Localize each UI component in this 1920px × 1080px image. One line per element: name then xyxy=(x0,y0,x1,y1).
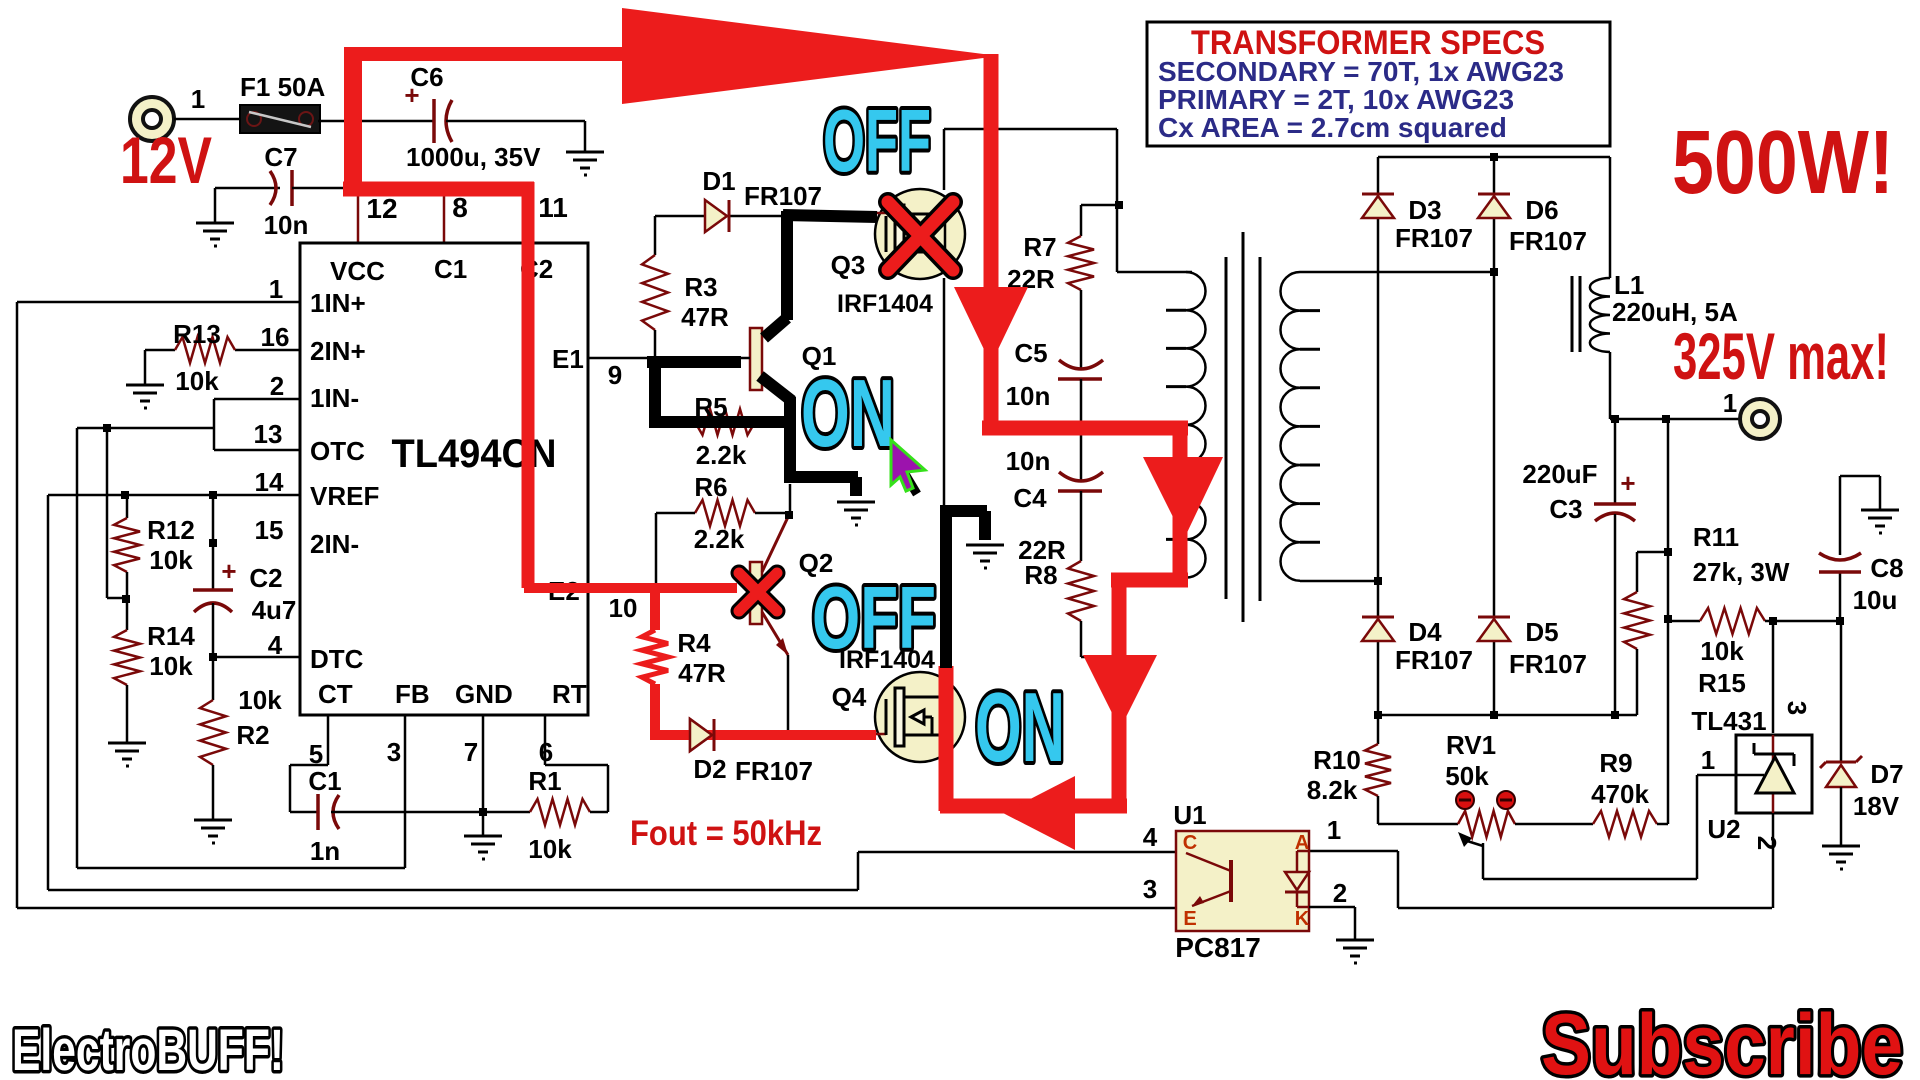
svg-text:TL431: TL431 xyxy=(1691,706,1766,736)
svg-text:2: 2 xyxy=(1333,878,1347,908)
wire C1 pin stub 8 xyxy=(443,190,446,243)
svg-text:D7: D7 xyxy=(1870,759,1903,789)
svg-text:10k: 10k xyxy=(149,651,193,681)
wire VREF bottom bus to U1 pin4 xyxy=(48,889,858,892)
resistor R1 10k xyxy=(530,799,590,825)
svg-text:VCC: VCC xyxy=(330,256,385,286)
wire red path primary jog xyxy=(1111,573,1188,588)
wire red path 12V riser xyxy=(344,47,362,192)
capacitor C2 4u7 xyxy=(193,588,233,592)
wire TL431 pin1 to RV1 wiper xyxy=(1697,774,1764,777)
resistor R6 2.2k xyxy=(695,500,755,526)
svg-text:FR107: FR107 xyxy=(1509,649,1587,679)
svg-text:1: 1 xyxy=(1327,815,1341,845)
zener D7 18V xyxy=(1840,621,1843,762)
IC U1 PC817 optocoupler xyxy=(1176,831,1309,931)
svg-text:D2: D2 xyxy=(693,754,726,784)
wire primary bottom lead xyxy=(1119,577,1186,580)
svg-text:L1: L1 xyxy=(1614,270,1644,300)
resistor R5 2.2k xyxy=(695,409,755,435)
svg-text:10u: 10u xyxy=(1853,585,1898,615)
svg-text:D3: D3 xyxy=(1408,195,1441,225)
svg-text:OFF: OFF xyxy=(812,568,936,667)
svg-text:R1: R1 xyxy=(528,766,561,796)
wire inner bottom bus xyxy=(77,867,405,870)
ground (pin7) xyxy=(464,836,502,859)
svg-text:2.2k: 2.2k xyxy=(696,440,747,470)
wire C6 to ground xyxy=(446,120,585,123)
svg-text:R3: R3 xyxy=(684,272,717,302)
svg-text:10k: 10k xyxy=(238,685,282,715)
svg-text:E: E xyxy=(1183,908,1196,930)
wire red path VCC link xyxy=(343,182,534,197)
wire black E1 feed xyxy=(647,356,741,368)
svg-text:ON: ON xyxy=(801,360,895,467)
resistor R14 10k xyxy=(126,599,129,630)
red arrow down (primary) xyxy=(1143,457,1223,539)
wire output sense vertical xyxy=(1667,419,1670,824)
svg-text:10k: 10k xyxy=(149,545,193,575)
svg-text:FR107: FR107 xyxy=(744,181,822,211)
svg-text:FR107: FR107 xyxy=(1395,223,1473,253)
ground (R13) xyxy=(126,385,164,408)
capacitor C8 10u xyxy=(1839,476,1842,555)
svg-text:1: 1 xyxy=(191,84,205,114)
wire C2 to DTC xyxy=(212,603,215,657)
node snubber junction xyxy=(1115,201,1123,209)
svg-text:R9: R9 xyxy=(1599,748,1632,778)
diode D2 FR107 (overlay) xyxy=(690,719,712,751)
resistor R12 10k xyxy=(126,495,129,518)
svg-text:GND: GND xyxy=(455,679,513,709)
svg-text:16: 16 xyxy=(261,322,290,352)
svg-text:FR107: FR107 xyxy=(1395,645,1473,675)
ground (D7) xyxy=(1822,846,1860,869)
svg-text:2: 2 xyxy=(1752,836,1782,850)
wire secondary top lead xyxy=(1300,271,1494,274)
svg-text:D5: D5 xyxy=(1525,617,1558,647)
svg-text:27k, 3W: 27k, 3W xyxy=(1693,557,1790,587)
resistor R3 47R xyxy=(654,216,657,255)
svg-text:RV1: RV1 xyxy=(1446,730,1496,760)
capacitor C4 10n xyxy=(1059,472,1103,481)
wire pin14 VREF xyxy=(48,494,300,497)
resistor R4 47R (red highlighted) xyxy=(642,630,668,684)
svg-text:R6: R6 xyxy=(694,472,727,502)
svg-text:D1: D1 xyxy=(702,166,735,196)
diode D3 FR107 xyxy=(1362,196,1394,218)
ground (R2) xyxy=(194,820,232,843)
wire black through R5 xyxy=(649,416,795,428)
wire C1 to GND node xyxy=(331,811,530,814)
wire TL431 pin2 down xyxy=(1772,813,1775,908)
wire red path bottom horizontal xyxy=(940,799,1127,814)
diode D2 FR107 xyxy=(690,719,712,751)
diode D6 FR107 xyxy=(1478,196,1510,218)
svg-text:1: 1 xyxy=(269,274,283,304)
svg-text:15: 15 xyxy=(255,515,284,545)
wire pin3 FB stub xyxy=(404,715,407,868)
wire negative rail xyxy=(1378,714,1637,717)
svg-text:VREF: VREF xyxy=(310,481,379,511)
svg-text:PC817: PC817 xyxy=(1175,932,1261,963)
ground (U1 pin2) xyxy=(1336,940,1374,963)
node R12/R14 junction xyxy=(122,595,130,603)
svg-text:OTC: OTC xyxy=(310,436,365,466)
svg-text:C8: C8 xyxy=(1870,553,1903,583)
ground (R14) xyxy=(108,743,146,766)
red X (E2 blocked) xyxy=(739,573,777,611)
svg-text:R4: R4 xyxy=(677,628,711,658)
wire red path E2 horizontal xyxy=(524,583,737,593)
wire red path R4 branch xyxy=(650,588,660,630)
transformer T1 secondary winding xyxy=(1280,272,1300,581)
node output junctions xyxy=(1611,415,1619,423)
svg-text:10n: 10n xyxy=(1006,381,1051,411)
svg-text:RT: RT xyxy=(552,679,587,709)
wire pin2 1IN- xyxy=(214,398,300,401)
svg-text:CT: CT xyxy=(318,679,353,709)
wire R8 bottom xyxy=(1080,621,1083,657)
svg-text:11: 11 xyxy=(538,192,568,223)
wire E1 pin9 xyxy=(588,357,655,360)
wire RV1 to R9 xyxy=(1515,823,1593,826)
svg-text:ON: ON xyxy=(975,672,1065,782)
svg-text:SECONDARY = 70T, 1x AWG23: SECONDARY = 70T, 1x AWG23 xyxy=(1158,56,1564,87)
svg-text:1: 1 xyxy=(1701,745,1715,775)
capacitor C3 220uF xyxy=(1614,419,1617,504)
transformer specs box xyxy=(1147,22,1610,146)
svg-text:R11: R11 xyxy=(1693,522,1739,552)
ground (C6) xyxy=(566,152,604,175)
wire black Q1 emitter to ground xyxy=(784,471,858,483)
svg-text:10k: 10k xyxy=(1700,636,1744,666)
svg-text:4: 4 xyxy=(268,630,283,660)
wire D6/D5 vertical xyxy=(1493,157,1496,193)
svg-text:C: C xyxy=(1183,832,1197,854)
wire C5 to C4 xyxy=(1080,379,1083,482)
svg-text:ElectroBUFF!: ElectroBUFF! xyxy=(12,1018,284,1080)
wire red path top horizontal xyxy=(344,47,680,61)
wire junction to R12 node xyxy=(106,428,109,598)
svg-text:18V: 18V xyxy=(1853,791,1900,821)
wire red path primary bottom half xyxy=(1112,580,1127,812)
svg-text:OFF: OFF xyxy=(823,91,931,190)
resistor R10 8.2k xyxy=(1377,715,1380,744)
svg-text:Q4: Q4 xyxy=(832,682,867,712)
node junction xyxy=(103,424,111,432)
wire top DC rail xyxy=(1378,156,1610,159)
IC U? TL494CN box xyxy=(300,243,588,715)
ground (C8) xyxy=(1861,510,1899,533)
svg-text:C6: C6 xyxy=(410,62,443,92)
wire secondary bottom lead xyxy=(1300,580,1378,583)
resistor R15 10k xyxy=(1668,620,1700,623)
svg-text:U2: U2 xyxy=(1707,814,1740,844)
wire R7 top xyxy=(1081,204,1119,207)
node GND junction xyxy=(479,808,487,816)
wire red path primary top half xyxy=(1173,428,1188,580)
svg-text:2IN+: 2IN+ xyxy=(310,336,366,366)
svg-text:50k: 50k xyxy=(1445,761,1489,791)
transistor Q2 xyxy=(750,562,762,624)
wire 12V to fuse xyxy=(174,118,242,121)
svg-text:470k: 470k xyxy=(1591,779,1649,809)
wire black drive D1 to Q3 gate xyxy=(783,215,877,217)
svg-text:1n: 1n xyxy=(310,836,340,866)
wire primary top lead xyxy=(1117,271,1192,274)
svg-text:C7: C7 xyxy=(264,142,297,172)
capacitor C7 10n xyxy=(215,187,280,190)
wire red path E2 inside IC xyxy=(522,182,535,588)
svg-text:C2: C2 xyxy=(249,563,282,593)
wire red path down to center tap xyxy=(984,54,999,430)
svg-text:1IN+: 1IN+ xyxy=(310,288,366,318)
wire black E1 down xyxy=(649,357,661,427)
svg-text:3: 3 xyxy=(1143,874,1157,904)
svg-text:C3: C3 xyxy=(1549,494,1582,524)
resistor R9 470k xyxy=(1593,811,1657,837)
svg-text:Q3: Q3 xyxy=(831,250,866,280)
wire L1 to output xyxy=(1609,352,1612,419)
diode D4 FR107 xyxy=(1362,619,1394,641)
wire black drive Q1 collector riser xyxy=(781,211,793,320)
wire pin4 DTC xyxy=(213,656,300,659)
svg-text:10: 10 xyxy=(609,593,638,623)
red arrow down (to Q4) xyxy=(1083,655,1157,729)
MOSFET Q4 IRF1404 xyxy=(875,672,965,762)
svg-text:C1: C1 xyxy=(434,254,467,284)
node secondary junctions xyxy=(1490,268,1498,276)
svg-text:K: K xyxy=(1295,908,1310,930)
svg-text:FB: FB xyxy=(395,679,430,709)
resistor R2 10k xyxy=(212,657,215,700)
resistor R7 22R xyxy=(1068,236,1094,290)
svg-text:325V max!: 325V max! xyxy=(1673,319,1889,393)
wire red path D2 to Q4 gate xyxy=(650,730,876,740)
svg-text:12: 12 xyxy=(366,193,397,224)
wire feedback to pin2 node xyxy=(77,427,214,430)
wire Q3 drain net xyxy=(943,129,946,190)
node VREF junctions xyxy=(121,491,129,499)
wire R7 to C5 xyxy=(1080,290,1083,370)
resistor R11 27k 3W xyxy=(1637,551,1668,554)
wire fuse to C6 xyxy=(318,120,434,123)
red arrow right xyxy=(622,8,999,104)
transformer core xyxy=(1225,257,1228,599)
svg-text:+: + xyxy=(1620,468,1635,498)
svg-text:14: 14 xyxy=(255,467,284,497)
svg-text:R12: R12 xyxy=(147,515,195,545)
svg-text:Fout = 50kHz: Fout = 50kHz xyxy=(630,814,822,853)
wire red path R4 to D2 xyxy=(650,684,660,735)
svg-text:U1: U1 xyxy=(1173,800,1206,830)
svg-text:3: 3 xyxy=(387,737,401,767)
capacitor C5 10n xyxy=(1059,360,1103,369)
svg-text:13: 13 xyxy=(254,419,283,449)
MOSFET Q3 IRF1404 xyxy=(875,189,965,279)
svg-text:10k: 10k xyxy=(175,366,219,396)
ground (Q4 gate) xyxy=(966,545,1004,568)
svg-text:C1: C1 xyxy=(308,766,341,796)
wire bottom bus to U1 pin3 xyxy=(17,907,1176,910)
svg-text:C5: C5 xyxy=(1014,338,1047,368)
wire opto cathode to ground xyxy=(1309,906,1355,909)
wire black Q4 gate pulldown xyxy=(940,511,952,668)
svg-text:47R: 47R xyxy=(681,302,729,332)
wire opto anode to TL431 xyxy=(1398,907,1772,910)
wire pin1 1IN+ left bus xyxy=(17,301,300,304)
svg-text:2.2k: 2.2k xyxy=(694,524,745,554)
wire pin15 2IN- xyxy=(212,495,215,590)
wire VCC pin stub 12 xyxy=(357,190,360,243)
resistor R13 10k xyxy=(235,349,300,352)
node 12V input connector xyxy=(130,97,174,141)
svg-text:A: A xyxy=(1295,832,1309,854)
red arrow left (into Q4) xyxy=(1003,776,1075,850)
svg-text:2: 2 xyxy=(270,371,284,401)
svg-text:4u7: 4u7 xyxy=(252,595,297,625)
svg-text:F1 50A: F1 50A xyxy=(240,72,325,102)
svg-text:R14: R14 xyxy=(147,621,195,651)
diode D5 FR107 xyxy=(1478,619,1510,641)
svg-text:D4: D4 xyxy=(1408,617,1442,647)
wire pin7 GND stub xyxy=(482,715,485,836)
red X over Q3 xyxy=(888,202,953,270)
IC U2 TL431 xyxy=(1736,735,1812,813)
svg-text:2IN-: 2IN- xyxy=(310,529,359,559)
wire red path to primary xyxy=(982,421,1188,436)
svg-text:C4: C4 xyxy=(1013,483,1047,513)
svg-text:R10: R10 xyxy=(1313,745,1361,775)
mouse cursor xyxy=(905,474,917,494)
svg-text:1000u, 35V: 1000u, 35V xyxy=(406,142,541,172)
capacitor C6 1000u 35V xyxy=(432,99,436,143)
svg-text:R15: R15 xyxy=(1698,668,1746,698)
potentiometer RV1 50k xyxy=(1458,811,1515,837)
svg-text:7: 7 xyxy=(464,737,478,767)
node output connector 325V xyxy=(1740,399,1780,439)
resistor R8 22R xyxy=(1068,561,1094,621)
inductor L1 220uH 5A xyxy=(1571,276,1574,352)
svg-text:8.2k: 8.2k xyxy=(1307,775,1358,805)
svg-text:10n: 10n xyxy=(264,210,309,240)
svg-text:R8: R8 xyxy=(1024,560,1057,590)
svg-text:R13: R13 xyxy=(173,319,221,349)
transistor Q1 xyxy=(750,328,762,390)
svg-text:10n: 10n xyxy=(1006,446,1051,476)
wire pin5 CT loop xyxy=(327,715,330,765)
svg-text:R7: R7 xyxy=(1023,232,1056,262)
svg-text:4: 4 xyxy=(1143,822,1158,852)
transformer T1 primary winding xyxy=(1186,272,1206,578)
wire C4 to R8 xyxy=(1080,491,1083,561)
svg-text:10k: 10k xyxy=(528,834,572,864)
svg-text:1IN-: 1IN- xyxy=(310,383,359,413)
red arrow down (center tap) xyxy=(954,287,1028,364)
svg-text:IRF1404: IRF1404 xyxy=(837,290,933,318)
svg-text:500W!: 500W! xyxy=(1672,113,1894,213)
wire TL431 ref xyxy=(1772,621,1775,733)
svg-text:9: 9 xyxy=(608,360,622,390)
svg-text:+: + xyxy=(221,556,236,586)
svg-text:3: 3 xyxy=(1782,701,1812,715)
wire pin13 OTC xyxy=(214,449,300,452)
svg-text:D6: D6 xyxy=(1525,195,1558,225)
wire C7 to ground xyxy=(214,188,217,223)
wire D3/D4 vertical xyxy=(1377,157,1380,193)
svg-text:FR107: FR107 xyxy=(1509,226,1587,256)
wire VCC rail xyxy=(350,189,531,192)
wire D1 node xyxy=(655,215,705,218)
svg-text:Cx AREA = 2.7cm squared: Cx AREA = 2.7cm squared xyxy=(1158,112,1507,143)
svg-text:Subscribe: Subscribe xyxy=(1541,997,1903,1080)
svg-text:FR107: FR107 xyxy=(735,756,813,786)
wire red path Q4 drain-source xyxy=(939,666,954,811)
wire C8 to ground xyxy=(1840,475,1880,478)
fuse F1 50A xyxy=(240,105,320,133)
capacitor C1 1n xyxy=(316,794,320,830)
svg-text:R2: R2 xyxy=(236,720,269,750)
svg-text:12V: 12V xyxy=(120,123,212,197)
svg-text:47R: 47R xyxy=(678,658,726,688)
svg-text:8: 8 xyxy=(452,192,468,223)
svg-text:PRIMARY = 2T, 10x AWG23: PRIMARY = 2T, 10x AWG23 xyxy=(1158,84,1514,115)
diode D1 FR107 xyxy=(705,200,727,232)
wire black Q1 emitter xyxy=(760,376,792,401)
ground (C7) xyxy=(196,223,234,246)
svg-text:DTC: DTC xyxy=(310,644,364,674)
ground (Q1 emitter path) xyxy=(837,502,875,525)
wire C2 pin stub 11 xyxy=(530,190,533,243)
node DTC junction xyxy=(209,653,217,661)
svg-text:E1: E1 xyxy=(552,344,584,374)
svg-text:220uF: 220uF xyxy=(1522,459,1597,489)
